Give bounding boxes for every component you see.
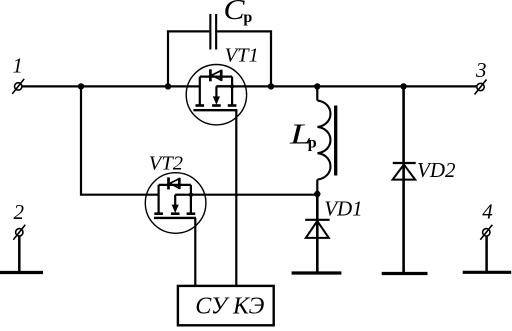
svg-text:VD1: VD1 xyxy=(324,197,363,221)
svg-text:1: 1 xyxy=(12,54,23,78)
svg-text:VD2: VD2 xyxy=(417,158,456,182)
svg-text:СУ КЭ: СУ КЭ xyxy=(195,294,264,320)
svg-text:3: 3 xyxy=(475,58,487,82)
svg-text:VT2: VT2 xyxy=(149,152,183,174)
svg-text:2: 2 xyxy=(13,200,24,224)
svg-text:C: C xyxy=(224,0,245,26)
svg-text:р: р xyxy=(243,9,252,26)
svg-text:VT1: VT1 xyxy=(225,44,259,66)
svg-text:р: р xyxy=(308,135,317,152)
svg-text:4: 4 xyxy=(482,200,493,224)
